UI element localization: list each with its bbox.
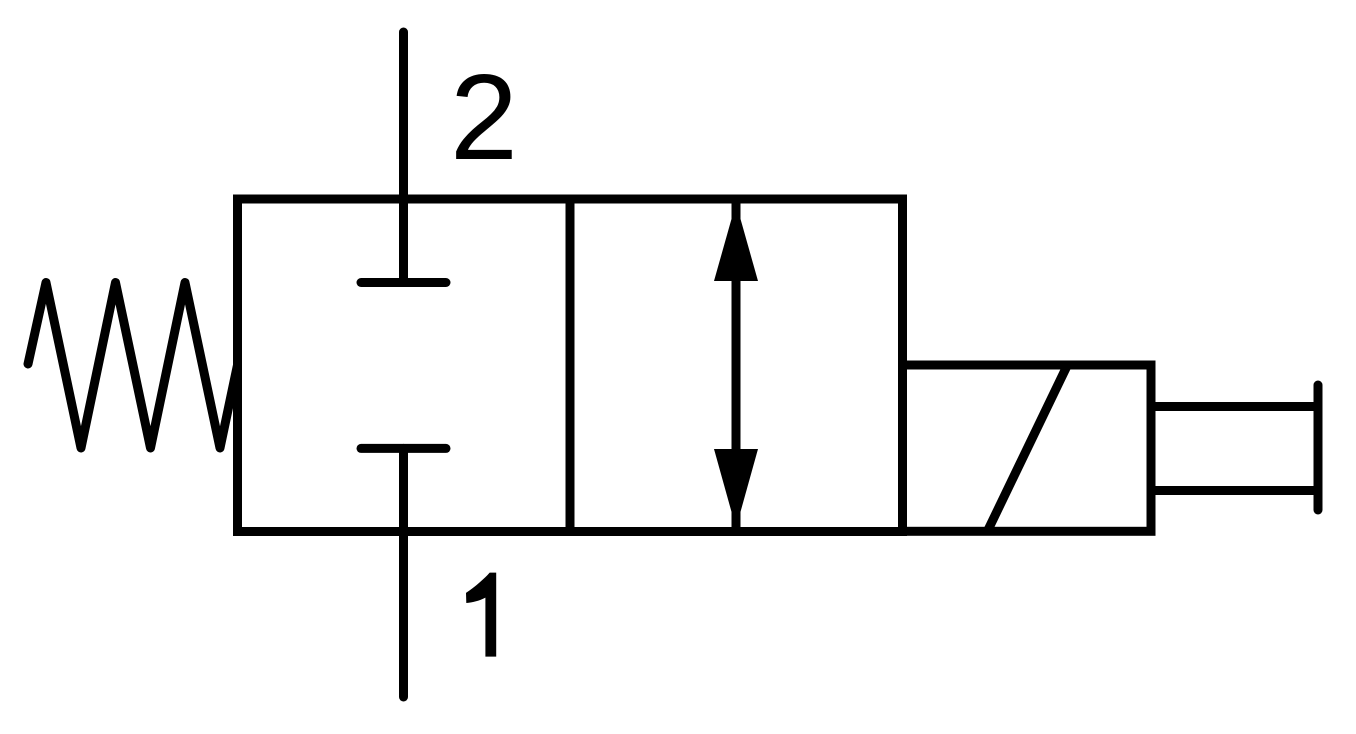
flow arrow head down [714,449,758,528]
blocked port 2 T-bar [361,278,446,287]
valve body outer box (two positions) [238,199,903,532]
flow arrow head up [714,203,758,281]
spring (return spring, left side) [28,283,238,449]
plunger bottom line [1151,486,1318,495]
port 2 line (top) [399,32,408,283]
port 1 line (bottom) [399,448,408,697]
solenoid diagonal [988,366,1067,530]
solenoid box [903,365,1152,531]
plunger top line [1151,402,1318,411]
flow arrow shaft [732,202,741,529]
plunger end cap [1314,385,1323,510]
blocked port 1 T-bar [361,444,446,453]
svg-text:2: 2 [450,49,518,185]
position divider [566,199,575,532]
label port 1 [466,573,496,657]
